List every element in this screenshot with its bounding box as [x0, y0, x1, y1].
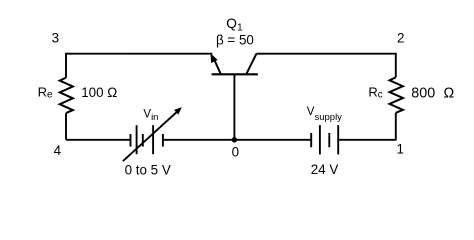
svg-text:800 Ω: 800 Ω	[411, 86, 454, 102]
resistor Re	[60, 78, 73, 114]
Vin variable arrowhead	[174, 107, 182, 114]
wire bottom-middle (Vin to Vsupply through node 0)	[163, 139, 311, 141]
wire bottom-left (node 4 to Vin)	[66, 139, 131, 141]
svg-text:1: 1	[396, 141, 403, 156]
svg-text:2: 2	[397, 31, 404, 46]
battery Vsupply plate short 1	[310, 133, 312, 147]
svg-text:0 to 5 V: 0 to 5 V	[125, 163, 171, 178]
transistor Q1 emitter line	[214, 59, 221, 74]
wire top-left (Re top via node 3 corner to emitter arrow)	[66, 54, 212, 78]
svg-text:β = 50: β = 50	[216, 32, 254, 47]
battery Vsupply plate long 2	[337, 125, 339, 154]
battery Vsupply plate long 1	[319, 125, 321, 154]
battery Vin plate short 3	[162, 134, 164, 147]
svg-text:100 Ω: 100 Ω	[81, 85, 117, 100]
battery Vin plate long 1	[136, 125, 138, 154]
wire right vertical bottom (Rc to node 1)	[338, 113, 396, 140]
battery Vin plate short 1	[130, 134, 132, 147]
svg-text:0: 0	[232, 145, 239, 160]
battery Vin plate short 2	[142, 134, 144, 147]
wire left vertical (Re bottom to node 4 corner)	[65, 113, 67, 140]
svg-text:4: 4	[54, 143, 62, 158]
transistor Q1 base bar	[212, 73, 258, 75]
battery Vin plate long 2	[152, 125, 154, 154]
transistor Q1 emitter arrowhead	[210, 53, 217, 63]
transistor Q1 collector line	[246, 54, 256, 75]
svg-text:24 V: 24 V	[311, 162, 339, 177]
svg-text:3: 3	[52, 31, 59, 46]
resistor Rc	[390, 77, 403, 113]
wire base (transistor base to node 0)	[233, 74, 235, 140]
node 0 junction dot	[232, 137, 238, 143]
battery Vsupply plate short 2	[328, 133, 330, 147]
wire top-right (collector to node 2)	[256, 54, 395, 78]
Vin variable arrow line	[123, 110, 179, 161]
